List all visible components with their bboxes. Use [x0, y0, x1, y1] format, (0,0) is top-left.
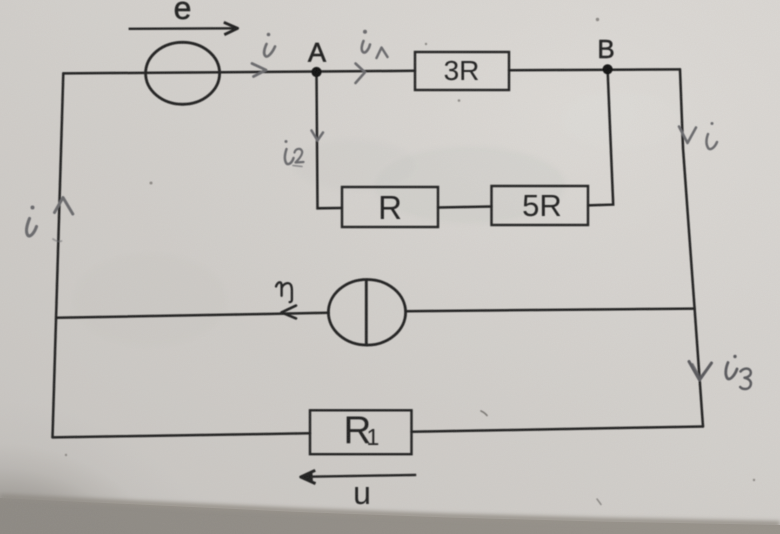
node B: [603, 64, 613, 74]
wire: top (left corner through source and node A to 3R): [63, 71, 415, 74]
annotation current i2 (on branch from A, with v arrowhead): [285, 131, 324, 167]
resistor 3R: [415, 52, 509, 90]
bottom-left corner shadow: [0, 380, 430, 534]
arrowhead eta (on middle wire, pointing left): [282, 306, 297, 319]
annotation current i (right rail, top, with check arrowhead): [679, 122, 717, 149]
voltage source e (circle on top wire): [146, 42, 220, 104]
wire: R to 5R: [438, 207, 492, 208]
arrow for voltage u (points left): [301, 470, 416, 483]
annotation current i (after source, with > arrowhead): [252, 33, 275, 77]
annotation current i (left rail, with up arrowhead): [27, 198, 73, 242]
wire: middle left (left rail to eta source): [57, 313, 329, 318]
label eta: [276, 282, 292, 302]
dust specks: [65, 18, 755, 481]
wire: middle right (eta source to right rail): [406, 309, 695, 312]
wire: bottom (R1 to left corner): [53, 433, 311, 437]
wire: bottom (right corner to R1): [412, 427, 704, 432]
current source eta (circle with vertical bar): [328, 280, 405, 346]
annotation current i1 (before 3R, with > arrowhead on wire): [356, 30, 388, 83]
wire: top (3R to B to top-right corner): [509, 68, 680, 71]
resistor 5R: [492, 186, 589, 225]
wire: 5R to corner below B: [588, 70, 613, 206]
node A: [311, 67, 321, 77]
wire: right vertical: [680, 69, 703, 426]
wire: node A down: [317, 72, 343, 208]
arrow for emf e (points right): [129, 22, 238, 34]
wire: left vertical: [53, 73, 64, 437]
resistor R: [342, 187, 438, 227]
table edge dark band at bottom: [0, 498, 780, 534]
value label R1: [344, 409, 380, 452]
resistor R1: [310, 410, 412, 454]
annotation current i3 (right rail, lower, with check arrowhead): [689, 355, 751, 389]
